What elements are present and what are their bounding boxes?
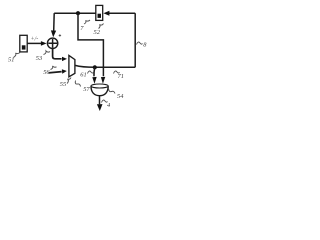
wire: arrow from 51 to summing junction 53 (28, 42, 42, 44)
svg-text:57: 57 (83, 86, 90, 93)
label 52 with leader (94, 24, 104, 36)
node: junction dot on top line (76, 11, 80, 15)
wire: lower input arrow into selector (56) (48, 72, 61, 73)
svg-text:+/-: +/- (31, 37, 39, 43)
label 61 with leader (80, 71, 93, 78)
svg-text:51: 51 (8, 57, 14, 64)
label 7 with leader (80, 20, 90, 32)
wire: mixer outlet arrow (stream 4) (99, 96, 101, 104)
svg-text:8: 8 (143, 42, 147, 49)
wire: summing junction output into selector top input (53, 49, 62, 59)
wire: top feedback line from corner to sensor 52 (54, 12, 96, 14)
svg-text:56: 56 (43, 69, 50, 76)
label 54 with leader (109, 89, 125, 101)
label 4 with leader (102, 100, 112, 109)
selector/valve 55 (69, 55, 75, 76)
summing junction 53 (47, 38, 57, 48)
label 51 with leader (8, 52, 20, 63)
label 55 with leader (60, 78, 71, 88)
label 57 with leader (75, 81, 90, 94)
svg-text:4: 4 (107, 102, 111, 109)
arrowhead of right feed into mixer (101, 77, 105, 84)
label 53 with leader (36, 51, 50, 62)
mixer vessel 54 (91, 84, 108, 96)
svg-text:7: 7 (80, 25, 84, 32)
svg-text:55: 55 (60, 81, 66, 88)
svg-text:61: 61 (80, 72, 86, 79)
sensor/transducer 52 on top line (96, 5, 103, 20)
svg-text:54: 54 (117, 93, 124, 100)
wire: output of selector 55 over to mixer and from return line (75, 65, 135, 67)
node: junction dot above mixer (93, 65, 97, 69)
arrowhead into summing junction top (51, 30, 56, 37)
label 56 with leader (43, 66, 56, 76)
wire: vertical drop into summing junction (53, 13, 56, 31)
label 8 with leader (137, 42, 148, 49)
svg-text:53: 53 (36, 55, 42, 62)
sign mark near top input (59, 34, 61, 36)
svg-text:52: 52 (94, 29, 101, 36)
label 71 with leader (114, 71, 124, 80)
wire: line from right corner into sensor 52 (109, 12, 135, 14)
svg-text:71: 71 (118, 73, 124, 80)
wire: left arrow from dot into mixer (93, 67, 96, 76)
wire: right vertical return line 8 (134, 13, 136, 67)
wire: feed from junction dot down and over to mixer (stream 7) (78, 13, 103, 76)
sensor/transducer 51 (20, 35, 27, 52)
arrowhead into right side of sensor 52 (103, 11, 109, 16)
